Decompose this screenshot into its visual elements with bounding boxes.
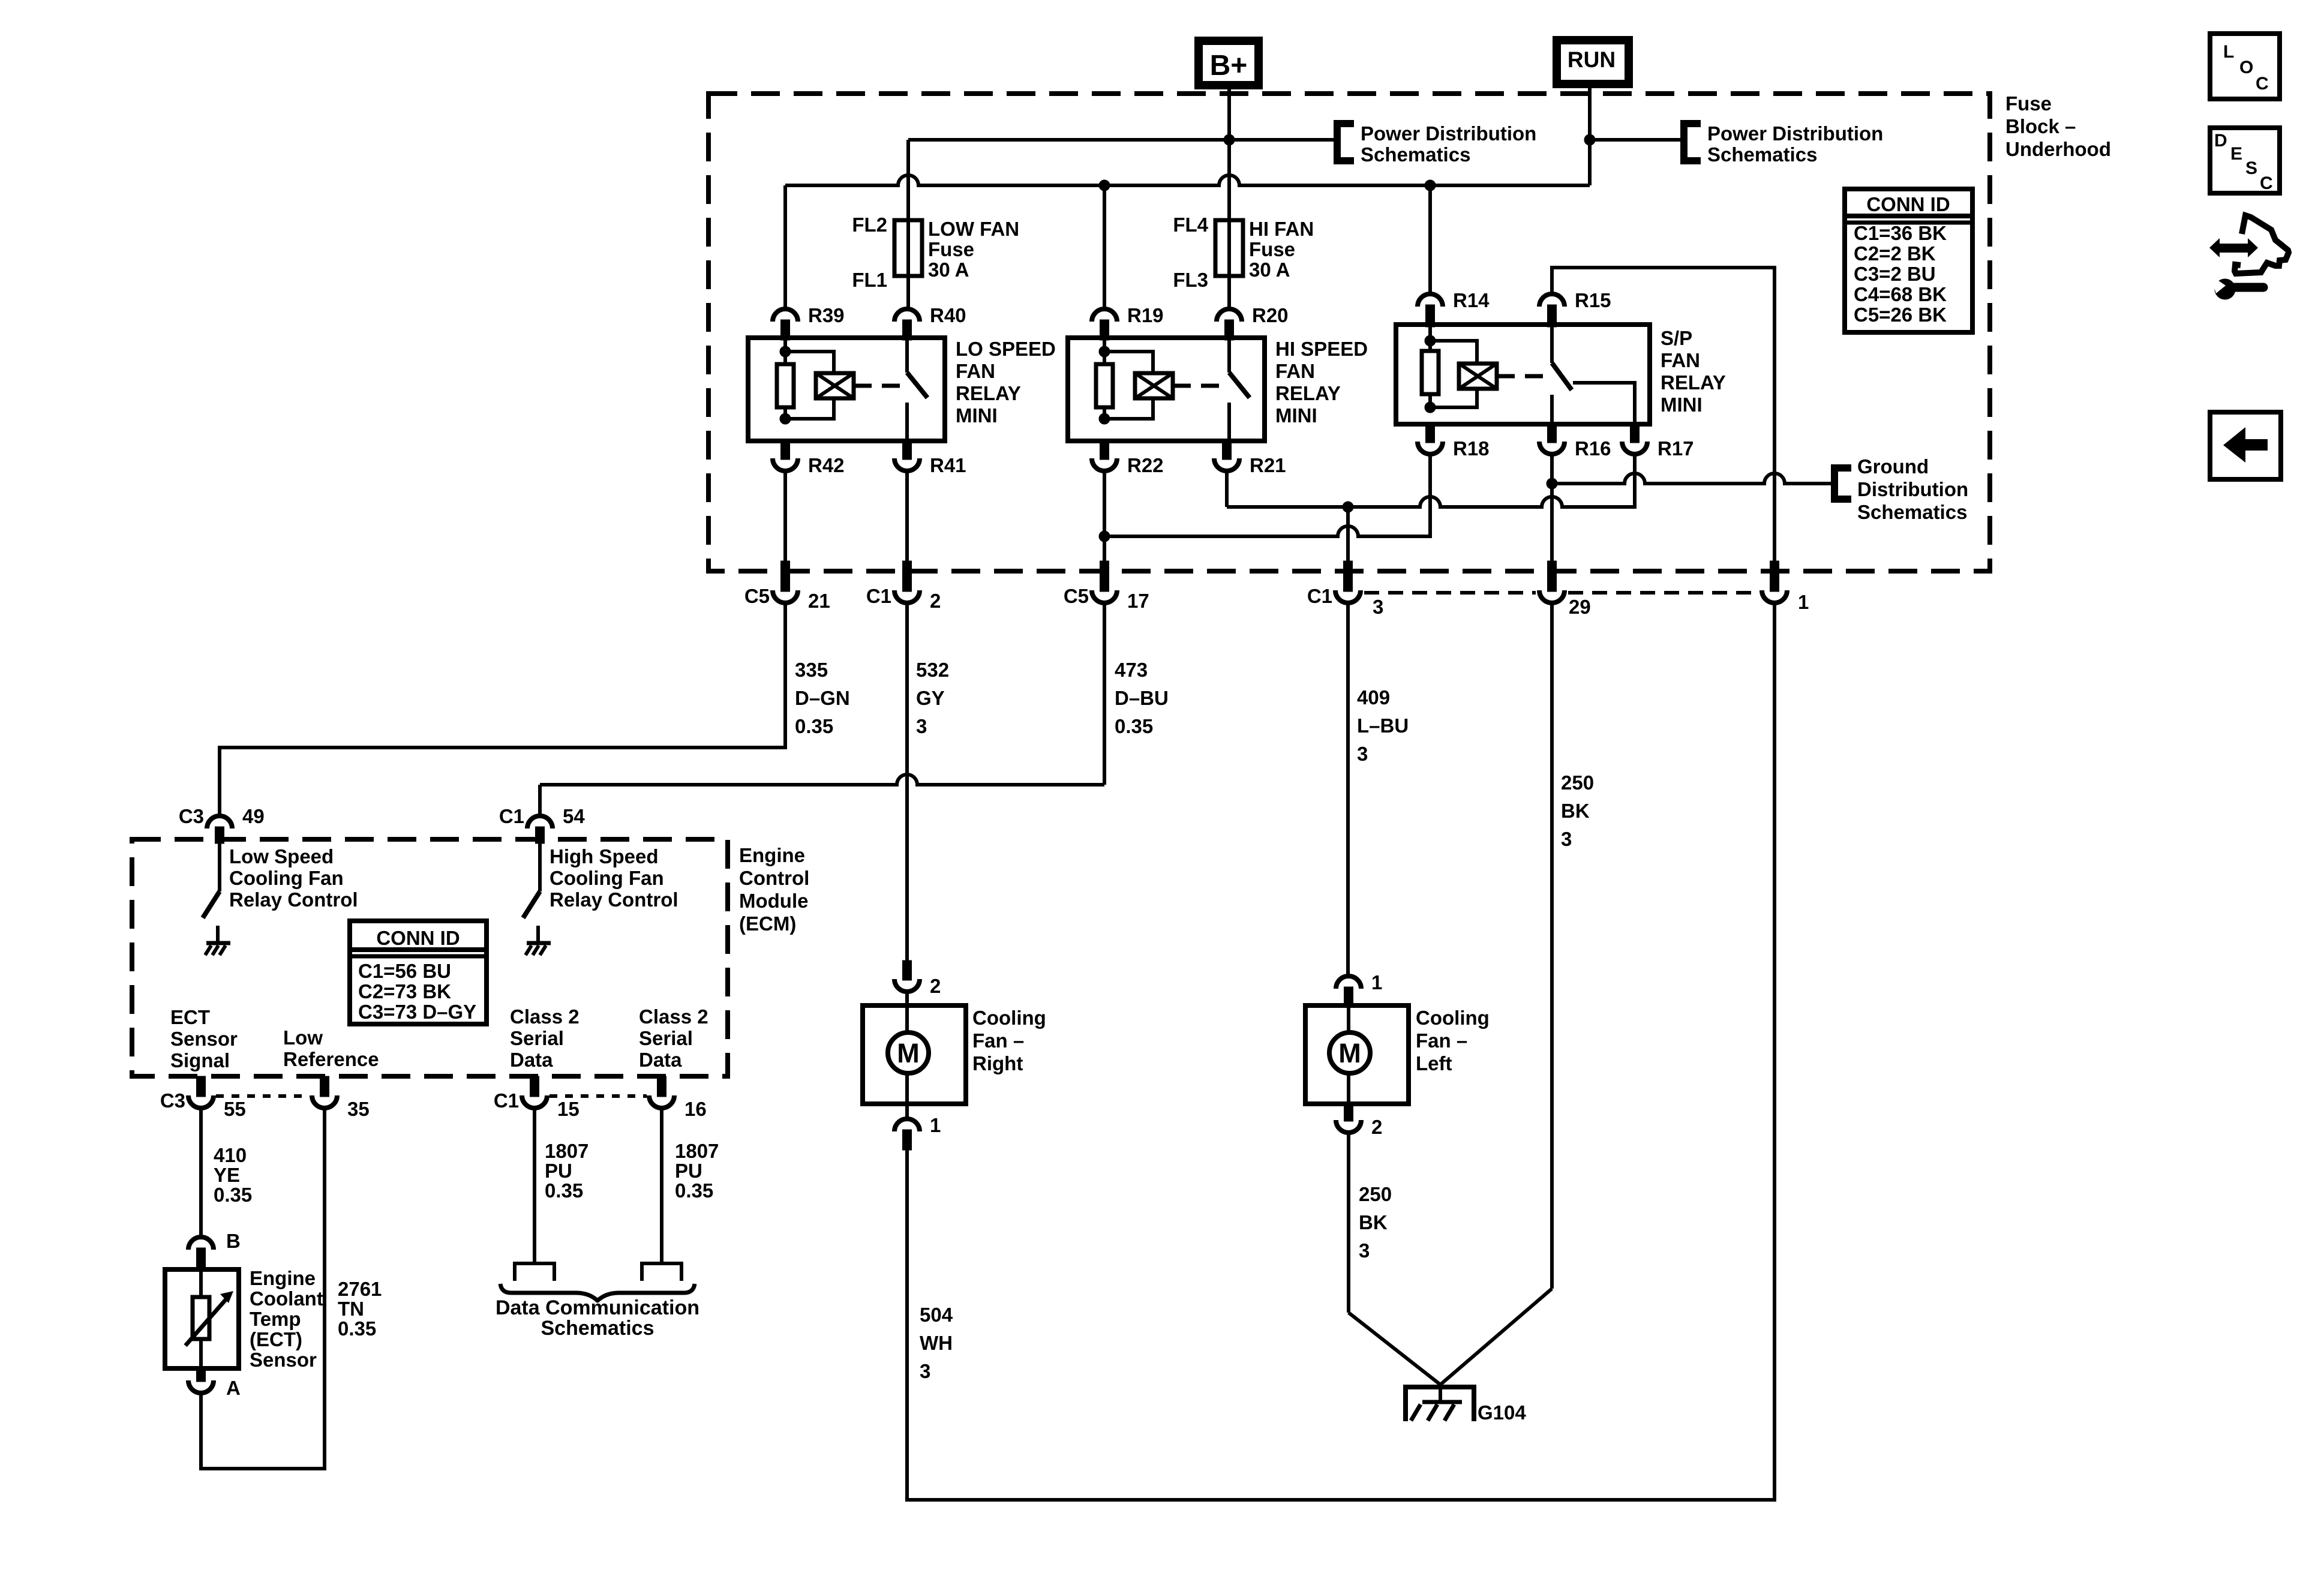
- svg-text:C5=26 BK: C5=26 BK: [1854, 304, 1947, 326]
- svg-text:O: O: [2239, 58, 2253, 77]
- svg-text:410: 410: [214, 1144, 247, 1166]
- fan left motor: [1347, 1007, 1350, 1032]
- connector R39: [773, 309, 798, 322]
- svg-text:Class 2: Class 2: [510, 1005, 580, 1028]
- svg-text:C: C: [2256, 74, 2269, 94]
- svg-text:FAN: FAN: [956, 360, 995, 382]
- svg-text:R42: R42: [808, 454, 845, 476]
- wire R19 drop: [1103, 185, 1106, 307]
- connector 16: [657, 1076, 666, 1097]
- svg-text:GY: GY: [916, 687, 945, 709]
- relay box HI SPEED: [1068, 338, 1265, 441]
- svg-text:WH: WH: [920, 1332, 953, 1354]
- svg-text:E: E: [2230, 144, 2242, 164]
- svg-text:Fan –: Fan –: [1416, 1029, 1467, 1052]
- svg-text:3: 3: [920, 1360, 930, 1382]
- svg-text:250: 250: [1359, 1183, 1392, 1205]
- svg-text:Low: Low: [283, 1026, 323, 1049]
- svg-text:2: 2: [930, 975, 941, 997]
- connector C1 dashed link: [1364, 591, 1536, 595]
- svg-text:(ECM): (ECM): [739, 912, 796, 935]
- svg-text:21: 21: [808, 590, 830, 612]
- terminator 1: [515, 1263, 554, 1281]
- junction R22/R18 link: [1099, 531, 1110, 542]
- svg-text:C2=73 BK: C2=73 BK: [358, 980, 451, 1002]
- connector C3-55: [197, 1076, 206, 1097]
- svg-text:R41: R41: [930, 454, 966, 476]
- svg-text:PU: PU: [545, 1160, 572, 1182]
- svg-text:C3: C3: [179, 805, 204, 827]
- svg-text:R16: R16: [1575, 437, 1611, 460]
- relay coil branch: [783, 338, 787, 420]
- svg-text:335: 335: [795, 659, 828, 681]
- svg-text:CONN ID: CONN ID: [1866, 193, 1950, 215]
- connector R21: [1223, 440, 1232, 460]
- svg-text:30 A: 30 A: [928, 259, 969, 281]
- wire 410 YE: [199, 1110, 203, 1235]
- svg-text:CONN ID: CONN ID: [376, 927, 460, 949]
- wire 1807 PU 1: [533, 1110, 536, 1262]
- svg-text:MINI: MINI: [956, 404, 998, 427]
- svg-text:250: 250: [1561, 772, 1594, 794]
- svg-text:C1=36 BK: C1=36 BK: [1854, 222, 1947, 244]
- svg-text:1: 1: [930, 1114, 941, 1136]
- svg-text:PU: PU: [675, 1160, 702, 1182]
- svg-text:Coolant: Coolant: [250, 1287, 323, 1310]
- svg-text:0.35: 0.35: [675, 1179, 713, 1202]
- svg-text:C1=56 BU: C1=56 BU: [358, 960, 451, 982]
- wire pin3 drop: [1346, 507, 1350, 561]
- svg-text:0.35: 0.35: [545, 1179, 583, 1202]
- ECT sensor box: [165, 1269, 239, 1368]
- svg-text:2: 2: [930, 590, 941, 612]
- svg-text:D: D: [2214, 131, 2227, 151]
- svg-text:Fan –: Fan –: [972, 1029, 1024, 1052]
- svg-text:R39: R39: [808, 304, 845, 326]
- svg-text:54: 54: [563, 805, 585, 827]
- connector C3 dashed link: [216, 1094, 310, 1098]
- connector 35: [320, 1076, 329, 1097]
- svg-text:Signal: Signal: [170, 1049, 230, 1071]
- svg-text:R18: R18: [1453, 437, 1490, 460]
- svg-text:S: S: [2245, 158, 2257, 178]
- relay box S/P FAN RELAY MINI: [1396, 325, 1650, 424]
- wire B+ vertical: [1227, 85, 1231, 140]
- svg-text:2: 2: [1371, 1116, 1382, 1138]
- connector C5-21: [781, 561, 790, 592]
- relay coil branch: [1103, 338, 1106, 420]
- svg-text:RELAY: RELAY: [1275, 382, 1341, 404]
- wire RUN to bracket 2: [1590, 138, 1684, 142]
- svg-text:C1: C1: [866, 585, 891, 607]
- svg-text:Relay Control: Relay Control: [229, 888, 358, 911]
- terminator 2: [642, 1263, 681, 1281]
- svg-text:High Speed: High Speed: [550, 845, 659, 867]
- svg-text:C3: C3: [160, 1089, 185, 1112]
- wire ECT low reference loop: [201, 1110, 325, 1469]
- svg-text:RELAY: RELAY: [1661, 371, 1726, 394]
- svg-text:55: 55: [224, 1098, 246, 1120]
- svg-text:1: 1: [1798, 591, 1809, 613]
- wire 473 D-BU: [1103, 605, 1106, 785]
- svg-text:Underhood: Underhood: [2005, 138, 2111, 160]
- svg-text:R19: R19: [1127, 304, 1164, 326]
- connector fan right 1: [894, 1119, 920, 1131]
- connector R14: [1418, 294, 1443, 307]
- icon vehicle with arrow: [2235, 215, 2289, 274]
- fuse block CONN ID box: [1845, 189, 1972, 332]
- wire R41 to C1-2: [905, 473, 909, 561]
- wire pin29 to ground diagonal: [1440, 1289, 1552, 1385]
- cooling fan right box: [863, 1005, 966, 1104]
- high speed relay control switch: [538, 843, 542, 891]
- connector C1 dashed link 2: [550, 1094, 647, 1098]
- S/P relay coil branch: [1428, 325, 1432, 409]
- connector R20: [1217, 309, 1242, 322]
- svg-text:C3=73 D–GY: C3=73 D–GY: [358, 1001, 476, 1023]
- connector R41: [903, 440, 912, 460]
- wire ground distribution line: [1552, 473, 1834, 484]
- wire 250 BK right: [1550, 605, 1554, 1289]
- svg-text:Reference: Reference: [283, 1048, 379, 1070]
- wire RUN vertical: [1588, 84, 1592, 185]
- fuse block dashed border: [708, 94, 1990, 571]
- svg-text:Engine: Engine: [250, 1267, 316, 1289]
- connector 1: [1770, 561, 1779, 592]
- junction B+/line1: [1224, 134, 1235, 145]
- wire 335 D-GN: [220, 605, 785, 814]
- ECM dashed border: [132, 839, 728, 1076]
- svg-text:49: 49: [242, 805, 265, 827]
- wire 1807 PU 2: [660, 1110, 663, 1262]
- svg-text:Cooling Fan: Cooling Fan: [550, 867, 664, 889]
- svg-text:R15: R15: [1575, 289, 1611, 311]
- relay switch: [905, 338, 909, 373]
- wire fan left to ground diagonal: [1349, 1313, 1440, 1385]
- svg-text:Schematics: Schematics: [1857, 501, 1967, 523]
- svg-text:L–BU: L–BU: [1357, 715, 1409, 737]
- fan right motor: [905, 993, 909, 1032]
- svg-text:Right: Right: [972, 1052, 1023, 1074]
- connector A: [197, 1368, 206, 1382]
- wire FL2 drop from line1: [906, 140, 910, 220]
- icon back arrow box: [2210, 412, 2281, 479]
- svg-text:Fuse: Fuse: [2005, 92, 2052, 115]
- connector C1-54: [527, 816, 553, 828]
- svg-text:C1: C1: [494, 1089, 519, 1112]
- junction RUN/bracket: [1584, 134, 1595, 145]
- icon DESC box: [2210, 128, 2280, 193]
- wire R17 drop: [1633, 456, 1637, 509]
- svg-text:473: 473: [1115, 659, 1148, 681]
- wire R15 jog to pin1: [1552, 268, 1774, 561]
- svg-text:Fuse: Fuse: [1249, 238, 1295, 260]
- junction R16/ground line: [1547, 478, 1557, 489]
- ECM CONN ID box: [350, 921, 487, 1024]
- svg-text:FAN: FAN: [1661, 349, 1700, 371]
- wire 473 jog to C1-54: [540, 775, 1104, 785]
- svg-text:3: 3: [916, 715, 927, 737]
- svg-text:C5: C5: [744, 585, 770, 607]
- connector R15: [1539, 294, 1565, 307]
- svg-text:D–GN: D–GN: [795, 687, 850, 709]
- connector C1-2: [903, 561, 912, 592]
- svg-text:17: 17: [1127, 590, 1149, 612]
- svg-text:Data Communication: Data Communication: [496, 1296, 699, 1319]
- connector B: [188, 1237, 214, 1250]
- svg-text:G104: G104: [1478, 1401, 1526, 1424]
- svg-text:M: M: [1338, 1038, 1361, 1068]
- svg-text:0.35: 0.35: [338, 1317, 376, 1340]
- svg-text:0.35: 0.35: [1115, 715, 1153, 737]
- svg-text:R21: R21: [1250, 454, 1286, 476]
- svg-text:HI FAN: HI FAN: [1249, 218, 1314, 240]
- wire R21 drop and link to R17: [1225, 473, 1229, 507]
- connector C5-17: [1100, 561, 1109, 592]
- svg-text:C1: C1: [1307, 585, 1332, 607]
- off-page bracket power distribution 2: [1684, 124, 1701, 161]
- svg-text:HI SPEED: HI SPEED: [1275, 338, 1368, 360]
- cooling fan left box: [1305, 1005, 1409, 1104]
- svg-text:0.35: 0.35: [214, 1184, 252, 1206]
- svg-text:30 A: 30 A: [1249, 259, 1290, 281]
- connector C3-49: [207, 816, 232, 828]
- off-page bracket power distribution 1: [1337, 124, 1354, 161]
- icon wrench: [2215, 279, 2235, 299]
- svg-text:FL1: FL1: [852, 269, 887, 291]
- svg-text:S/P: S/P: [1661, 327, 1692, 349]
- connector C1-3: [1344, 561, 1353, 592]
- connector R16: [1548, 423, 1557, 443]
- junction line2/R14: [1425, 180, 1436, 191]
- low speed relay control switch: [218, 843, 221, 891]
- svg-text:C5: C5: [1064, 585, 1089, 607]
- wire R39 drop: [783, 185, 787, 307]
- wire line1 B+ feed to FL2 and off-page: [908, 138, 1336, 142]
- svg-text:Cooling Fan: Cooling Fan: [229, 867, 344, 889]
- svg-text:Sensor: Sensor: [170, 1028, 238, 1050]
- svg-text:Serial: Serial: [510, 1027, 564, 1049]
- svg-text:LOW FAN: LOW FAN: [928, 218, 1019, 240]
- svg-text:Data: Data: [510, 1049, 553, 1071]
- svg-text:Control: Control: [739, 867, 809, 889]
- svg-text:RUN: RUN: [1568, 47, 1616, 72]
- svg-text:3: 3: [1561, 828, 1572, 850]
- svg-text:A: A: [226, 1377, 241, 1399]
- connector R40: [894, 309, 920, 322]
- svg-text:YE: YE: [214, 1164, 240, 1186]
- connector fan right 2: [903, 960, 912, 980]
- connector fan left 1: [1336, 976, 1361, 989]
- svg-text:D–BU: D–BU: [1115, 687, 1169, 709]
- junction link/pin3: [1343, 502, 1353, 512]
- svg-text:1: 1: [1371, 971, 1382, 993]
- wire R16 drop to pin29: [1550, 456, 1554, 561]
- svg-text:504: 504: [920, 1304, 953, 1326]
- junction line2/R19: [1099, 180, 1110, 191]
- connector R18: [1426, 423, 1435, 443]
- wire 532 GY: [905, 605, 909, 960]
- wire R22-R18 link: [1104, 526, 1431, 536]
- high speed ground: [536, 926, 540, 942]
- svg-text:FAN: FAN: [1275, 360, 1315, 382]
- svg-text:C2=2 BK: C2=2 BK: [1854, 242, 1936, 265]
- connector C1-15: [530, 1076, 539, 1097]
- svg-text:15: 15: [557, 1098, 580, 1120]
- svg-text:BK: BK: [1359, 1211, 1388, 1233]
- svg-text:409: 409: [1357, 686, 1390, 709]
- svg-text:MINI: MINI: [1275, 404, 1317, 427]
- S/P relay switch: [1550, 325, 1554, 363]
- svg-text:C: C: [2260, 173, 2273, 193]
- svg-text:BK: BK: [1561, 800, 1590, 822]
- svg-text:Engine: Engine: [739, 844, 805, 866]
- svg-text:R17: R17: [1658, 437, 1694, 460]
- svg-text:R14: R14: [1453, 289, 1490, 311]
- icon LOC box: [2210, 34, 2280, 99]
- svg-text:Module: Module: [739, 890, 808, 912]
- svg-text:C3=2 BU: C3=2 BU: [1854, 263, 1936, 285]
- svg-text:B+: B+: [1210, 50, 1248, 82]
- wire 409 L-BU: [1346, 605, 1350, 974]
- svg-text:1807: 1807: [675, 1140, 719, 1162]
- relay box LO SPEED: [748, 338, 945, 441]
- svg-text:Schematics: Schematics: [1707, 143, 1817, 166]
- svg-text:0.35: 0.35: [795, 715, 833, 737]
- svg-text:Block –: Block –: [2005, 115, 2076, 137]
- fuse FL2/FL1 LOW FAN 30A: [906, 220, 910, 307]
- svg-text:FL4: FL4: [1173, 214, 1208, 236]
- wire 250 BK left: [1347, 1134, 1350, 1313]
- svg-text:3: 3: [1357, 743, 1368, 765]
- svg-text:16: 16: [684, 1098, 707, 1120]
- svg-text:C4=68 BK: C4=68 BK: [1854, 283, 1947, 305]
- svg-text:ECT: ECT: [170, 1006, 210, 1028]
- relay switch: [1227, 338, 1231, 373]
- svg-text:Cooling: Cooling: [972, 1007, 1046, 1029]
- off-page bracket ground distribution: [1834, 468, 1851, 499]
- svg-text:R40: R40: [930, 304, 966, 326]
- svg-text:(ECT): (ECT): [250, 1328, 302, 1350]
- svg-text:L: L: [2223, 42, 2234, 62]
- connector R17: [1631, 423, 1640, 443]
- svg-text:Distribution: Distribution: [1857, 478, 1968, 500]
- svg-text:Power Distribution: Power Distribution: [1361, 122, 1536, 145]
- wire R21-R17 link: [1227, 497, 1635, 507]
- underbrace data communication: [500, 1284, 695, 1301]
- ground G104 symbol: [1439, 1383, 1442, 1403]
- connector R19: [1092, 309, 1117, 322]
- svg-text:Left: Left: [1416, 1052, 1452, 1074]
- wire 504 WH return: [907, 605, 1774, 1500]
- svg-text:M: M: [897, 1038, 920, 1068]
- connector fan left 2: [1344, 1103, 1353, 1121]
- svg-text:Power Distribution: Power Distribution: [1707, 122, 1883, 145]
- svg-text:29: 29: [1569, 596, 1591, 618]
- low speed ground: [216, 926, 220, 942]
- connector R22: [1100, 440, 1109, 460]
- svg-text:MINI: MINI: [1661, 394, 1703, 416]
- svg-text:2761: 2761: [338, 1278, 382, 1300]
- svg-text:Data: Data: [639, 1049, 682, 1071]
- svg-text:R22: R22: [1127, 454, 1164, 476]
- svg-text:B: B: [226, 1230, 241, 1252]
- svg-text:RELAY: RELAY: [956, 382, 1021, 404]
- svg-text:3: 3: [1373, 596, 1383, 618]
- ECT thermistor arrow: [185, 1296, 229, 1346]
- node RUN: [1557, 40, 1629, 84]
- svg-text:532: 532: [916, 659, 949, 681]
- connector 29: [1548, 561, 1557, 592]
- connector R42: [781, 440, 790, 460]
- svg-text:3: 3: [1359, 1239, 1370, 1262]
- svg-text:Class 2: Class 2: [639, 1005, 708, 1028]
- svg-text:FL2: FL2: [852, 214, 887, 236]
- svg-text:Relay Control: Relay Control: [550, 888, 678, 911]
- svg-text:Schematics: Schematics: [1361, 143, 1470, 166]
- svg-text:LO SPEED: LO SPEED: [956, 338, 1056, 360]
- svg-text:Ground: Ground: [1857, 455, 1929, 478]
- wire R18 drop: [1428, 456, 1432, 538]
- svg-text:Cooling: Cooling: [1416, 1007, 1490, 1029]
- fuse FL4/FL3 HI FAN 30A: [1227, 220, 1231, 307]
- svg-text:1807: 1807: [545, 1140, 588, 1162]
- svg-text:Temp: Temp: [250, 1308, 301, 1330]
- wire R22 to C5-17: [1103, 473, 1106, 561]
- wire R14 drop: [1428, 185, 1432, 292]
- svg-text:Sensor: Sensor: [250, 1349, 317, 1371]
- svg-text:FL3: FL3: [1173, 269, 1208, 291]
- svg-text:Low Speed: Low Speed: [229, 845, 334, 867]
- svg-text:TN: TN: [338, 1298, 364, 1320]
- svg-text:35: 35: [347, 1098, 370, 1120]
- svg-text:Fuse: Fuse: [928, 238, 974, 260]
- svg-text:C1: C1: [499, 805, 524, 827]
- wire R42 to C5-21: [783, 473, 787, 561]
- wire line2 RUN feed: [785, 175, 1590, 185]
- svg-text:Serial: Serial: [639, 1027, 693, 1049]
- node B+: [1199, 41, 1259, 85]
- svg-text:R20: R20: [1252, 304, 1289, 326]
- svg-text:Schematics: Schematics: [541, 1317, 654, 1340]
